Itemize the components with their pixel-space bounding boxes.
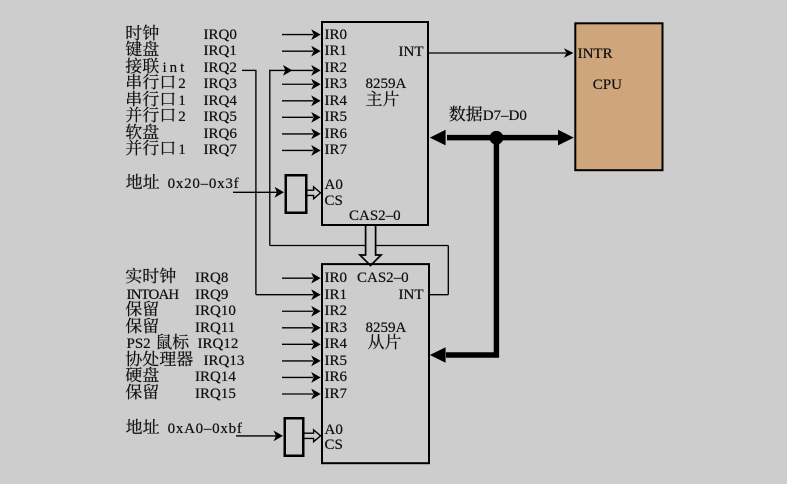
slave pin IR0 [325,266,348,287]
master pin IR4 [325,89,348,110]
slave pin IR2 [325,299,348,320]
data bus branch to slave [446,138,496,355]
wire IRQ15 to slave IR7 [282,393,313,395]
label digit 2 [178,105,186,126]
wire master INT to CPU INTR [428,52,566,54]
CPU box [575,23,662,170]
hollow arrow decoder to slave A0/CS [304,430,320,442]
master pin IR6 [325,122,348,143]
hollow arrow CAS2-0 master to slave [360,225,381,266]
slave label 8259A [366,316,407,337]
label IRQ11 [195,316,235,337]
wire IRQ12 to slave IR4 [282,343,313,345]
wire IRQ13 to slave IR5 [282,360,313,362]
slave pin IR4 [325,332,348,353]
master pin IR1 [325,39,348,60]
data bus junction dot [490,131,504,145]
wire IRQ6 to master IR6 [282,133,313,135]
CPU label [593,73,622,94]
label IRQ13 device [125,349,193,366]
label digit 1 [178,89,186,110]
slave pin IR1 [325,283,348,304]
label IRQ12 device [127,332,190,353]
wire IRQ1 to master IR1 [282,50,313,52]
label IRQ1 device [125,39,159,56]
label IRQ7 device [125,138,176,155]
8259A master chip box [322,22,428,225]
label IRQ10 device [125,299,159,316]
label IRQ2 [204,56,237,77]
label 数据D7-D0 [449,104,527,125]
master pin CS [325,189,343,210]
wire IRQ14 to slave IR6 [282,376,313,378]
label IRQ8 [195,266,228,287]
slave pin IR3 [325,316,348,337]
wire IRQ8 to slave IR0 [282,277,313,279]
label IRQ0 [204,23,237,44]
label IRQ5 device [125,105,176,122]
slave label 从片 [368,332,402,349]
label IRQ14 device [125,365,159,382]
label IRQ7 [204,138,237,159]
master label 主片 [366,89,400,106]
wire IRQ11 to slave IR3 [282,327,313,329]
label IRQ9 device [127,283,179,304]
master pin IR3 [325,72,348,93]
label IRQ12 [198,332,239,353]
wire IRQ5 to master IR5 [282,116,313,118]
label address 0x20-0x3f [126,172,240,193]
data bus D7-D0 (thick) [447,135,558,141]
label IRQ6 [204,122,237,143]
wire IRQ7 to master IR7 [282,149,313,151]
label IRQ10 [195,299,236,320]
label IRQ11 device [125,316,159,333]
slave pin INT [399,283,424,304]
slave pin IR7 [325,382,348,403]
slave pin CS [325,433,343,454]
label IRQ13 [204,349,245,370]
slave pin CAS2-0 [357,266,409,287]
wire slave INT to master IR2 (cascade) [429,294,448,296]
label IRQ3 device [125,72,176,89]
label IRQ5 [204,105,237,126]
label IRQ4 device [125,89,176,106]
label digit 2 [178,72,186,93]
label IRQ0 device [125,23,159,40]
CPU pin INTR [578,42,613,63]
slave pin A0 [325,418,343,439]
8259A slave chip box [322,264,429,463]
slave pin IR6 [325,365,348,386]
label IRQ3 [204,72,237,93]
master label 8259A [366,72,407,93]
label address 0xA0-0xbf [126,417,243,438]
label IRQ4 [204,89,237,110]
master pin CAS2-0 [349,204,401,225]
hollow arrow decoder to master A0/CS [307,187,320,199]
label IRQ14 [195,365,236,386]
wire address 0xA0-0xbf to decoder [236,435,276,437]
wire IRQ4 to master IR4 [282,100,313,102]
master pin A0 [325,173,343,194]
label IRQ9 [195,283,228,304]
slave pin IR5 [325,349,348,370]
master pin IR2 [325,56,348,77]
master pin IR7 [325,138,348,159]
label digit 1 [178,138,186,159]
wire IRQ0 to master IR0 [282,34,313,36]
wire IRQ2 label to slave IR1 (rerouted to IRQ9) [242,69,256,71]
wire address 0x20-0x3f to decoder [233,191,277,193]
label IRQ8 device [125,266,176,283]
wire IRQ10 to slave IR2 [282,310,313,312]
label IRQ15 device [125,382,159,399]
master pin IR5 [325,105,348,126]
master pin IR0 [325,23,348,44]
label IRQ1 [204,39,237,60]
label cascade int IRQ2 [125,56,187,77]
wire IRQ3 to master IR3 [282,83,313,85]
label IRQ6 device [125,122,159,139]
address decoder box (slave) [285,418,304,456]
address decoder box (master) [286,175,307,213]
master pin INT [399,40,424,61]
label IRQ15 [195,382,236,403]
